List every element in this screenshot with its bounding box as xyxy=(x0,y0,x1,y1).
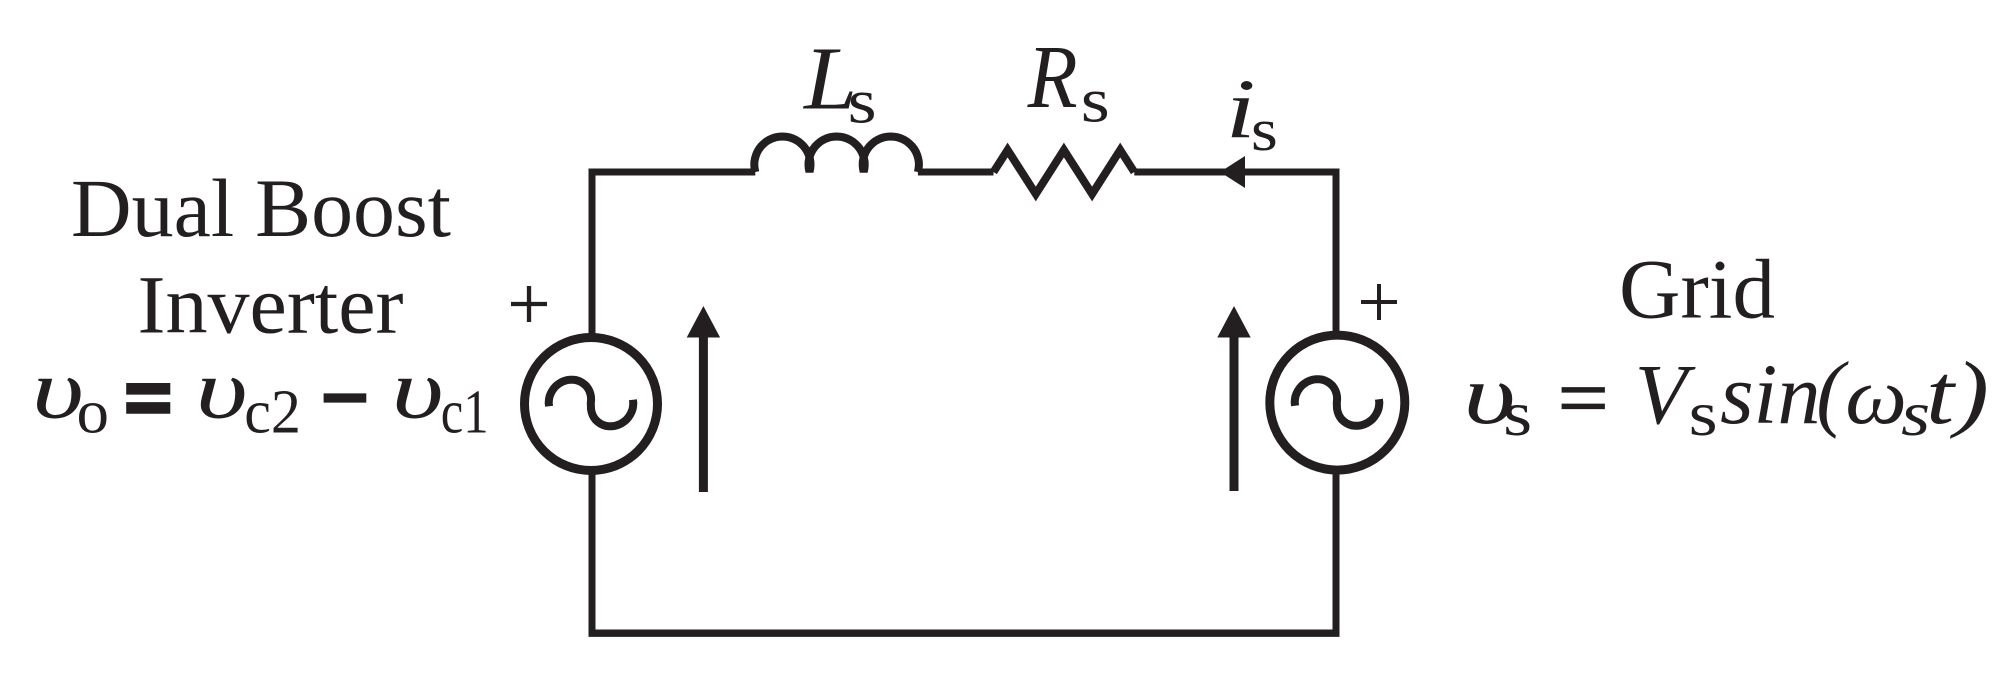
equals sign xyxy=(1562,390,1605,407)
svg-text:t: t xyxy=(1926,346,1956,442)
wire: top horizontal right of resistor xyxy=(1134,169,1339,176)
wire: left vertical top segment xyxy=(589,172,596,340)
svg-text:Grid: Grid xyxy=(1619,242,1775,336)
wire: right vertical bottom segment xyxy=(1333,470,1340,637)
wire: top horizontal left of inductor xyxy=(589,169,756,176)
resistor Rs xyxy=(994,150,1135,194)
wire: left vertical bottom segment xyxy=(589,470,596,637)
svg-text:sin: sin xyxy=(1720,346,1820,442)
svg-text:υ: υ xyxy=(196,343,248,437)
equation vo = vc2 - vc1 xyxy=(32,343,489,447)
equals sign xyxy=(126,389,170,408)
wire: right vertical top segment xyxy=(1333,172,1340,336)
sine symbol inside right source xyxy=(1295,379,1380,426)
minus sign xyxy=(324,393,367,402)
svg-text:V: V xyxy=(1635,346,1696,442)
equation vs = Vs sin(ws t) xyxy=(1464,344,1989,450)
current arrowhead is (points left) xyxy=(1220,156,1245,188)
source circle right (grid vs) xyxy=(1270,335,1405,470)
wire: bottom horizontal xyxy=(589,630,1340,637)
source circle left (dual boost inverter output vo) xyxy=(525,338,658,471)
svg-text:s: s xyxy=(1081,64,1110,135)
svg-text:c1: c1 xyxy=(441,379,489,447)
svg-text:ω: ω xyxy=(1845,351,1907,441)
plus polarity mark left xyxy=(511,286,547,322)
voltage reference arrow right xyxy=(1217,306,1250,491)
svg-text:c2: c2 xyxy=(244,379,301,447)
svg-text:Dual Boost: Dual Boost xyxy=(71,162,451,254)
voltage reference arrow left xyxy=(687,306,720,492)
plus polarity mark right xyxy=(1361,284,1397,320)
svg-text:): ) xyxy=(1949,344,1989,440)
svg-text:o: o xyxy=(77,379,110,447)
svg-text:s: s xyxy=(1689,378,1718,449)
svg-text:s: s xyxy=(1503,378,1532,449)
svg-text:s: s xyxy=(1251,97,1278,163)
svg-text:υ: υ xyxy=(392,343,444,437)
inductor Ls xyxy=(754,137,919,173)
svg-text:s: s xyxy=(848,65,877,136)
wire: top horizontal between inductor and resistor xyxy=(918,169,994,176)
svg-text:Inverter: Inverter xyxy=(138,258,404,350)
sine symbol inside left source xyxy=(549,380,634,427)
svg-text:R: R xyxy=(1027,28,1078,127)
